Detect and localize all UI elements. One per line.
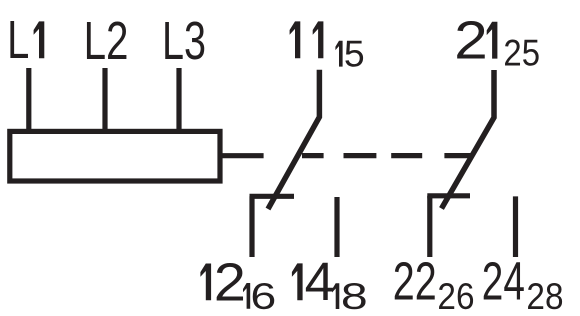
contact 1 terminal 12 wire <box>249 196 254 257</box>
svg-text:8: 8 <box>341 275 368 316</box>
label L1 glyph 1 <box>34 21 45 58</box>
svg-text:L2: L2 <box>84 11 129 71</box>
label terminal 12 glyph 1 <box>200 264 211 301</box>
mechanical linkage dashed line <box>302 153 473 158</box>
svg-text:L3: L3 <box>162 11 206 71</box>
wire L3 <box>176 68 181 134</box>
svg-text:26: 26 <box>437 275 474 316</box>
label terminal 21 glyph 1 <box>487 22 498 59</box>
label terminal 11 glyph 1 <box>290 21 301 58</box>
thermal overload element box <box>10 131 220 181</box>
contact 2 terminal 21 lead and moving contact arm <box>442 70 495 209</box>
wire L1 <box>26 68 31 134</box>
svg-text:5: 5 <box>344 33 365 75</box>
contact 2 NC seat <box>427 193 470 198</box>
label terminal 11 glyph 1b <box>313 21 324 58</box>
contact 2 terminal 24 wire (NO) <box>513 196 518 257</box>
wire from box to contact 1 <box>220 153 264 158</box>
label alternate terminal 15 glyph 1 <box>335 41 342 67</box>
svg-text:L: L <box>7 10 29 70</box>
label alternate terminal 16 glyph 1 <box>243 283 250 309</box>
svg-text:24: 24 <box>482 252 525 312</box>
wire L2 <box>102 68 107 134</box>
svg-text:6: 6 <box>250 275 276 316</box>
contact 1 terminal 14 wire (NO) <box>334 197 339 257</box>
svg-text:2: 2 <box>214 252 246 312</box>
svg-text:28: 28 <box>526 275 563 316</box>
label terminal 14 glyph 1 <box>292 263 303 300</box>
svg-text:22: 22 <box>393 252 437 312</box>
svg-text:2: 2 <box>454 11 488 71</box>
contact 1 terminal 11 lead and moving contact arm <box>268 70 319 209</box>
label alternate terminal 18 glyph 1 <box>332 283 339 309</box>
svg-text:4: 4 <box>305 252 335 312</box>
contact 2 terminal 22 wire <box>427 196 432 257</box>
svg-text:25: 25 <box>503 32 540 74</box>
contact 1 NC seat <box>250 194 295 199</box>
